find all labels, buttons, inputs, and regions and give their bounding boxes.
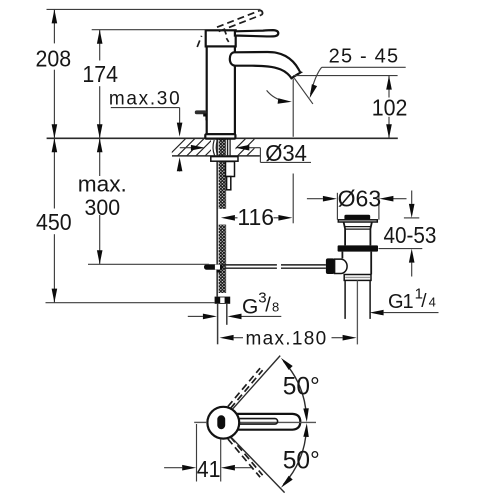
max.180 dimension	[234, 337, 343, 339]
cold feed tube narrow part	[227, 177, 231, 190]
dashed lever rotated up 50deg	[228, 368, 263, 408]
pipe below nut	[217, 304, 219, 345]
center slot black pill	[217, 415, 225, 429]
waste flange seal	[338, 245, 378, 251]
plug lip	[338, 220, 377, 222]
svg-text:102: 102	[372, 95, 408, 121]
174 dimension line	[99, 30, 101, 139]
upper 50deg arc	[284, 361, 307, 416]
stream angle diagonal	[294, 78, 313, 104]
40-53 dimension	[379, 191, 423, 277]
waste plug cap	[344, 215, 370, 220]
centerline left stub	[194, 421, 207, 423]
svg-text:8: 8	[272, 299, 279, 314]
spout	[230, 52, 301, 78]
pop-up rod clamp at hose	[204, 264, 223, 270]
cold feed tube wide part	[226, 162, 235, 177]
centerline right	[238, 421, 316, 423]
countertop top surface line	[47, 137, 398, 139]
svg-text:116: 116	[237, 204, 274, 230]
svg-text:max.180: max.180	[246, 329, 328, 350]
countertop hatching left	[168, 139, 222, 156]
lever slot	[237, 419, 278, 425]
lock nut under counter	[211, 157, 238, 162]
svg-text:41: 41	[197, 456, 221, 482]
svg-text:450: 450	[36, 209, 72, 235]
tilted head position (dashed)	[197, 36, 201, 47]
50deg leg lower	[229, 435, 285, 493]
plug body	[344, 222, 372, 245]
waste nut band	[344, 275, 371, 281]
svg-text:40-53: 40-53	[383, 222, 436, 248]
cartridge head	[206, 30, 236, 46]
450 extension line bottom	[46, 302, 215, 304]
adjustable stream arc arrow	[267, 90, 286, 101]
svg-text:/: /	[421, 291, 427, 312]
faucet circle top view	[207, 407, 239, 439]
102 dimension	[293, 75, 397, 77]
208 dimension line	[53, 9, 55, 138]
208 extension line top	[47, 8, 261, 10]
svg-text:G: G	[242, 296, 258, 319]
svg-text:max.30: max.30	[109, 88, 182, 109]
mounting hole right guide lines	[227, 139, 229, 156]
450 dimension line	[53, 138, 55, 302]
countertop bottom line	[172, 155, 260, 157]
rod socket cylinder	[335, 259, 347, 273]
raised lever (dashed)	[217, 10, 263, 31]
lower 50deg arc	[284, 430, 307, 485]
faucet base flange	[205, 134, 235, 138]
max.30 label leader	[111, 108, 180, 172]
svg-text:/: /	[265, 295, 271, 317]
O-ring seal curves in mounting hole	[213, 140, 218, 156]
countertop hatching right	[228, 139, 264, 156]
max.300 dimension line	[99, 138, 101, 264]
pop-up pull rod knob at back of body	[195, 110, 207, 114]
max.300 extension line bottom	[88, 263, 209, 265]
Ø63 dimension	[307, 193, 407, 220]
svg-text:4: 4	[429, 295, 436, 310]
41 dimension	[164, 424, 251, 482]
svg-text:G1: G1	[388, 291, 414, 313]
svg-text:174: 174	[82, 61, 118, 87]
svg-text:208: 208	[35, 46, 71, 72]
svg-text:Ø34: Ø34	[265, 140, 307, 166]
G3/8 hose end nut	[215, 297, 231, 304]
dashed lever rotated down 50deg	[228, 437, 263, 477]
174 extension line	[92, 29, 206, 31]
outlet vertical reference	[292, 79, 294, 137]
50deg leg upper	[232, 356, 280, 410]
solid lever handle	[235, 30, 278, 36]
waste centerline	[356, 280, 358, 344]
tailpipe	[344, 280, 346, 319]
svg-text:max.: max.	[78, 172, 127, 197]
rod knob	[326, 258, 335, 274]
waste body below flange	[341, 252, 343, 259]
G1 1/4 label leader	[384, 312, 439, 314]
horizontal pop-up rod to waste	[223, 265, 326, 268]
116 dimension	[235, 217, 279, 219]
G 3/8 dimension	[188, 315, 281, 317]
25-45 label shelf + leader arrow	[322, 66, 406, 68]
lever top view	[230, 414, 300, 430]
svg-text:50°: 50°	[283, 447, 320, 474]
faucet body	[207, 46, 235, 134]
svg-text:25 - 45: 25 - 45	[329, 46, 400, 68]
supply hose braid (threaded shank + flexible hose)	[217, 139, 226, 296]
svg-text:Ø63: Ø63	[338, 185, 381, 211]
Ø34 dimension	[180, 148, 311, 163]
svg-text:50°: 50°	[283, 373, 320, 400]
svg-text:300: 300	[85, 194, 121, 219]
